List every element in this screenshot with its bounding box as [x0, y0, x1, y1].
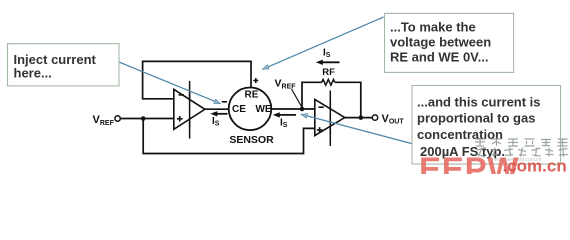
wire: sensor WE to op-amp U2 inverting input	[272, 108, 316, 110]
svg-text:RE and WE 0V...: RE and WE 0V...	[390, 50, 489, 65]
wire: feedback top rail RE to op-amp U1 inverting input	[143, 61, 251, 98]
watermark gray glyph row 1	[475, 138, 568, 147]
wire: op-amp U2 output to VOUT terminal	[345, 117, 373, 119]
svg-text:RE: RE	[245, 90, 259, 101]
wire: bottom rail from VREF node to op-amp U2 non-inverting input	[143, 119, 315, 154]
current arrow IS at WE	[273, 112, 296, 129]
svg-text:proportional to gas: proportional to gas	[417, 111, 535, 126]
svg-text:...and this current is: ...and this current is	[417, 95, 541, 110]
op-amp U1	[174, 81, 205, 139]
terminal VOUT	[372, 115, 377, 120]
svg-text:CE: CE	[232, 104, 246, 115]
callout pointer from right box to WE node	[301, 114, 412, 143]
svg-text:here...: here...	[14, 65, 52, 80]
current arrow IS at CE	[210, 111, 227, 128]
callout pointer from left box to CE wire	[119, 62, 221, 104]
op-amp U2	[315, 91, 345, 147]
wire: op-amp U1 output to sensor CE	[205, 108, 230, 110]
svg-text:SENSOR: SENSOR	[229, 134, 274, 146]
node: WE junction	[300, 107, 305, 112]
current arrow IS at RF	[316, 47, 340, 65]
wire: RF to output node	[335, 82, 361, 117]
callout pointer from top box to RE node	[263, 17, 384, 69]
resistor RF	[322, 79, 335, 85]
callout box: To make the voltage between RE and WE 0V	[385, 13, 514, 72]
svg-text:WE: WE	[255, 104, 271, 115]
polarity minus at CE wire	[222, 101, 227, 103]
svg-text:voltage between: voltage between	[390, 35, 491, 50]
node: VREF junction	[141, 116, 146, 121]
svg-text:concentration: concentration	[417, 127, 503, 142]
svg-text:RF: RF	[322, 67, 335, 78]
node: output junction	[359, 115, 364, 120]
pointer line VREF mid to WE node	[292, 89, 302, 107]
watermark gray script row	[477, 148, 568, 158]
polarity plus at RE wire	[253, 78, 258, 83]
svg-text:...To make the: ...To make the	[390, 20, 476, 35]
sensor body	[229, 88, 272, 131]
callout box: Inject current here	[8, 44, 120, 86]
svg-text:.com.cn: .com.cn	[503, 157, 567, 175]
wire: VREF input to op-amp U1 non-inverting input	[121, 118, 175, 120]
callout box: current proportional to gas concentration	[412, 86, 561, 165]
terminal VREF	[115, 116, 120, 121]
wire: WE node up to feedback resistor RF	[302, 82, 322, 109]
